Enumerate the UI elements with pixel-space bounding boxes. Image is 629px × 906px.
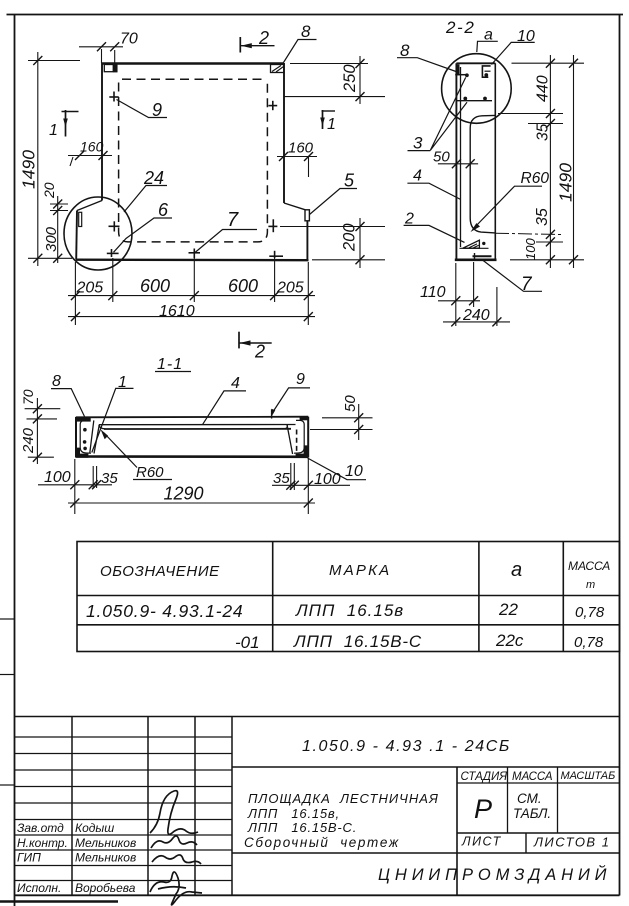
svg-text:35: 35 (273, 470, 290, 487)
label R60 (2-2) (471, 170, 550, 232)
svg-text:Исполн.: Исполн. (17, 881, 61, 895)
dim 100/35 left bottom of 1-1 (38, 459, 118, 514)
bottom interior line (460, 247, 489, 249)
plan bottom extension lines (75, 258, 308, 325)
plan right edge lower (306, 221, 308, 260)
plan right edge upper (283, 63, 285, 203)
1-1 right edge (307, 417, 309, 458)
label 8 (plan) (284, 22, 317, 63)
title block bottom frame (15, 894, 620, 896)
svg-text:70: 70 (120, 31, 138, 48)
1-1 left edge (75, 417, 77, 458)
svg-text:205: 205 (276, 280, 304, 297)
svg-text:100: 100 (523, 238, 538, 260)
top-right corner notch (271, 65, 284, 73)
2-2 interior line A (456, 100, 492, 102)
embed tick bottom-middle (189, 249, 201, 259)
line under designation (232, 766, 620, 768)
svg-text:1: 1 (327, 116, 336, 133)
label 7 (plan) (195, 209, 257, 253)
dim 20/300 left (41, 182, 68, 263)
label 2 (2-2) (404, 211, 465, 243)
svg-text:2: 2 (254, 342, 265, 362)
label 10 (2-2) (492, 28, 535, 65)
plan top edge (102, 62, 284, 64)
plan right jog diagonal (284, 203, 305, 210)
detail circle a (442, 54, 512, 124)
svg-text:9: 9 (152, 100, 162, 120)
svg-text:МАРКА: МАРКА (329, 562, 391, 579)
svg-text:0,78: 0,78 (575, 604, 605, 621)
dim 250 right (284, 56, 385, 104)
dashed inner rectangle sides+bottom (rounded bottom corners) (119, 83, 268, 242)
svg-text:Зав.отд: Зав.отд (17, 821, 64, 835)
1-1 right inner contour (294, 420, 304, 453)
svg-text:50: 50 (433, 149, 450, 166)
svg-text:10: 10 (345, 463, 363, 480)
plan left edge lower (75, 211, 78, 260)
label 4 (2-2) (407, 168, 460, 200)
svg-text:200: 200 (341, 223, 359, 252)
item 10 angle top-right (482, 66, 490, 77)
svg-text:35: 35 (101, 470, 118, 487)
svg-text:Воробьева: Воробьева (75, 881, 136, 895)
label 8 (1-1) (51, 373, 85, 417)
dim 70/240 left of 1-1 (20, 389, 60, 464)
plan left jog diagonal (77, 201, 102, 211)
svg-text:50: 50 (342, 395, 359, 412)
loop cross top-left (109, 92, 118, 102)
svg-text:35: 35 (534, 208, 551, 226)
1-1 bottom edge (76, 455, 308, 458)
left table rows (15, 737, 233, 881)
dim row 205/600/600/205 (68, 276, 315, 300)
fold mark left 1 (0, 618, 15, 620)
svg-text:МАСШТАБ: МАСШТАБ (561, 770, 616, 782)
embed tick bottom-right (269, 251, 283, 258)
stage/mass/scale headers (457, 767, 620, 833)
svg-text:Н.контр.: Н.контр. (17, 836, 68, 850)
1-1 right rebar dashed (296, 430, 298, 452)
1-1 cavity ceiling line (99, 424, 296, 426)
label 7 (2-2) (483, 260, 543, 295)
svg-text:ЛПП 16.15В-С.: ЛПП 16.15В-С. (247, 820, 357, 835)
section mark 1 left (49, 110, 79, 139)
svg-text:ГИП: ГИП (17, 851, 41, 865)
label 1 (1-1) (92, 374, 134, 453)
svg-text:4: 4 (231, 375, 240, 392)
1-1 left inner contour (80, 420, 91, 453)
svg-text:0,78: 0,78 (574, 634, 604, 651)
1-1 left rib slope lines (90, 420, 94, 452)
svg-text:6: 6 (158, 200, 169, 220)
dim 200 right (280, 218, 385, 268)
svg-text:ЛИСТ: ЛИСТ (461, 835, 502, 849)
item 8 bracket top-left (457, 64, 460, 74)
svg-text:2-2: 2-2 (445, 18, 475, 37)
svg-text:1290: 1290 (164, 484, 204, 504)
2-2 member left edge (455, 63, 457, 259)
item 10 angle bottom-left (black) (76, 448, 88, 458)
small rect on left lower edge (in detail circle) (79, 212, 82, 226)
svg-text:35: 35 (535, 123, 552, 141)
svg-text:1.050.9 - 4.93 .1 - 24СБ: 1.050.9 - 4.93 .1 - 24СБ (302, 738, 511, 755)
svg-text:1490: 1490 (556, 163, 576, 202)
svg-text:1610: 1610 (159, 303, 195, 320)
svg-text:СМ.: СМ. (517, 791, 542, 806)
2-2 member bottom edge (455, 258, 497, 261)
svg-text:ЛПП 16.15в,: ЛПП 16.15в, (247, 806, 340, 821)
detail circle callout 24 (64, 197, 132, 270)
label 3 with two leaders (408, 77, 468, 152)
svg-text:205: 205 (76, 280, 104, 297)
svg-text:Р: Р (474, 794, 492, 824)
svg-text:22с: 22с (495, 631, 524, 650)
sheet row (457, 832, 620, 834)
svg-text:1.050.9- 4.93.1-24: 1.050.9- 4.93.1-24 (86, 601, 243, 621)
svg-text:100: 100 (44, 469, 71, 486)
fold mark left 2 (0, 674, 15, 676)
title 1-1 (155, 356, 191, 373)
svg-text:250: 250 (341, 64, 359, 93)
svg-text:1-1: 1-1 (157, 356, 183, 373)
svg-text:160: 160 (80, 139, 104, 155)
dim 70 top-left (79, 31, 138, 65)
svg-text:1: 1 (49, 122, 58, 139)
detail letter a (477, 27, 498, 53)
notch item5 rect on right edge (305, 210, 309, 221)
2-2 interior contour with R60 fillets (470, 115, 495, 232)
svg-text:ЛИСТОВ 1: ЛИСТОВ 1 (533, 835, 610, 850)
svg-text:100: 100 (314, 471, 341, 488)
svg-text:70: 70 (20, 389, 36, 405)
loop cross bottom-right (268, 219, 277, 232)
item 7 bottom plate (473, 255, 492, 257)
svg-text:ЛПП 16.15в: ЛПП 16.15в (295, 601, 404, 620)
plan bottom edge (76, 259, 309, 262)
svg-text:ТАБЛ.: ТАБЛ. (513, 806, 551, 821)
label 24 (plan) (124, 168, 167, 212)
svg-text:СТАДИЯ: СТАДИЯ (461, 771, 508, 783)
svg-text:ПЛОЩАДКА ЛЕСТНИЧНАЯ: ПЛОЩАДКА ЛЕСТНИЧНАЯ (248, 791, 439, 806)
svg-text:160: 160 (288, 140, 314, 157)
item 8 plate top-left (black) (77, 417, 91, 422)
bottom dot (482, 242, 485, 245)
svg-text:4: 4 (413, 168, 422, 185)
right dims of 2-2 (498, 55, 584, 268)
svg-text:22: 22 (498, 600, 518, 619)
1-1 top edge (76, 416, 308, 419)
loop cross bottom-left (109, 221, 120, 231)
top-right corner thick mark (300, 417, 309, 420)
svg-text:20: 20 (41, 182, 57, 199)
label 8 (2-2) (397, 41, 456, 72)
label 4 (1-1) (203, 375, 246, 424)
svg-text:240: 240 (20, 427, 37, 454)
svg-text:МАССА: МАССА (568, 559, 610, 573)
svg-text:ЦНИИПРОМЗДАНИЙ: ЦНИИПРОМЗДАНИЙ (378, 865, 611, 884)
svg-text:600: 600 (228, 276, 258, 296)
svg-text:МАССА: МАССА (512, 771, 553, 783)
svg-text:ЛПП 16.15В-С: ЛПП 16.15В-С (293, 632, 422, 651)
dim 160 right (277, 140, 317, 178)
svg-text:ОБОЗНАЧЕНИЕ: ОБОЗНАЧЕНИЕ (100, 563, 220, 580)
dim 35/100 right bottom of 1-1 (272, 459, 350, 514)
label 6 (plan) (114, 200, 173, 252)
section mark 1 right (320, 110, 336, 133)
scan edge mark bottom-left (0, 900, 118, 903)
svg-text:R60: R60 (136, 464, 164, 481)
svg-text:3: 3 (413, 134, 423, 153)
svg-text:1490: 1490 (19, 150, 39, 189)
svg-text:7: 7 (227, 209, 239, 231)
label 9 (plan) (117, 100, 168, 121)
label 5 (plan) (310, 171, 358, 215)
2-2 extension line from ledge (dash-dot) (495, 233, 563, 234)
dim 1610 (68, 303, 315, 321)
title block outer top line (15, 716, 620, 718)
table grid (77, 542, 620, 652)
svg-text:8: 8 (52, 373, 61, 390)
svg-text:600: 600 (140, 276, 170, 296)
signature squiggles (150, 791, 202, 905)
svg-text:8: 8 (301, 22, 311, 41)
fold mark left 3 (0, 784, 15, 786)
svg-text:Кодыш: Кодыш (75, 821, 114, 835)
1-1 mesh line item4 (104, 428, 291, 430)
dim 50 right of 1-1 (310, 395, 373, 440)
svg-text:Мельников: Мельников (75, 851, 136, 865)
svg-text:т: т (586, 579, 595, 591)
2-2 mesh line item4 (460, 67, 462, 247)
dim 1490 left (19, 52, 81, 266)
svg-text:2: 2 (258, 28, 269, 48)
label 10 (1-1) (308, 458, 367, 480)
svg-text:240: 240 (462, 307, 490, 324)
dim 160 left (68, 139, 112, 167)
svg-text:-01: -01 (235, 633, 260, 652)
svg-text:300: 300 (43, 226, 60, 252)
1-1 left rebar dots (83, 428, 87, 450)
1-1 right fillet R60 (284, 425, 288, 429)
1-1 right rib slope (287, 425, 293, 454)
dim 1290 (68, 484, 315, 508)
svg-text:9: 9 (296, 371, 305, 388)
svg-text:Сборочный чертеж: Сборочный чертеж (244, 835, 400, 850)
plan left edge upper (101, 63, 103, 201)
vertical divider title/stamp (456, 767, 458, 895)
svg-text:440: 440 (535, 75, 552, 102)
embed tick bottom-left (107, 249, 119, 257)
svg-text:a: a (511, 559, 522, 581)
left table verticals (72, 717, 232, 896)
svg-text:R60: R60 (521, 170, 550, 187)
label 9 (1-1) (271, 371, 310, 419)
section mark 2 bottom (239, 332, 272, 362)
bottom triangle item2 (463, 240, 480, 248)
svg-text:5: 5 (344, 171, 355, 191)
section mark 2 top (240, 28, 274, 53)
svg-text:Мельников: Мельников (75, 836, 136, 850)
svg-text:110: 110 (420, 284, 446, 301)
dim 50 (2-2) (433, 149, 478, 169)
loop cross top-right (268, 101, 277, 110)
1-1 left fillet R60 (99, 425, 105, 429)
svg-text:24: 24 (143, 168, 164, 188)
2-2 member top edge (456, 62, 495, 64)
item 10 angle bottom-right (black) (296, 445, 308, 458)
bottom dims of 2-2 (420, 262, 510, 326)
label R60 (1-1) (101, 429, 173, 481)
top-left corner notch (104, 65, 117, 72)
dashed inner rectangle top (122, 78, 266, 80)
rebar dots in detail (463, 73, 488, 100)
2-2 member right edge (494, 63, 496, 259)
